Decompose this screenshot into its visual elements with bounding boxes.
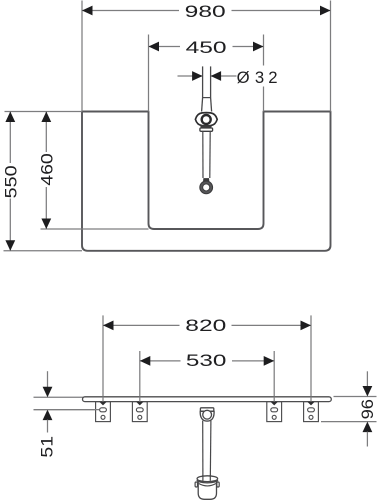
dim 51 lower extension line over bracket 1 (34, 409, 100, 411)
trap outlet horseshoe (200, 411, 214, 421)
dim 51 extension line top (34, 396, 92, 398)
pipe joint line (203, 97, 211, 99)
pipe into cup (202, 475, 204, 481)
drain pipe lower (top view) (202, 131, 204, 178)
dim 550 line (9, 112, 11, 164)
arrow 450 right (253, 42, 264, 52)
mounting bracket 3 (267, 402, 282, 422)
dim 550 extension line bottom (4, 250, 83, 252)
eye fitting dark band (200, 125, 211, 127)
extension line over plate + arrow at bracket 3 (273, 396, 275, 402)
mounting bracket 1 (96, 402, 111, 422)
extension line over plate + arrow at bracket 1 (102, 396, 104, 402)
svg-text:980: 980 (185, 2, 226, 21)
trap cup ears (195, 482, 197, 487)
console plate (front elevation) (83, 397, 332, 402)
dim 460 extension line bottom (41, 228, 149, 230)
ring tab (203, 178, 209, 182)
dim 450 extension line right (gap for Ø32 text) (263, 35, 265, 66)
dim 550 extension line top (5, 111, 83, 113)
dim Ø32 leader right (211, 75, 237, 77)
dim 51 line + outside arrows (47, 371, 49, 387)
dim 980 extension line left (81, 1, 83, 112)
arrow 460 bottom (41, 219, 51, 230)
dim 96 extension line bottom (321, 421, 377, 423)
svg-text:530: 530 (186, 351, 227, 370)
trap cup body (198, 482, 216, 500)
arrow 450 left (149, 42, 160, 52)
arrow 820 left (103, 321, 114, 331)
dim 820 extension line right (down to bracket 4) (310, 315, 312, 397)
eye fitting inner ring (202, 115, 211, 124)
arrow 530 left (140, 356, 151, 366)
svg-text:450: 450 (186, 38, 227, 57)
extension line over plate + arrow at bracket 4 (310, 396, 312, 402)
dim 820 line (103, 324, 180, 326)
dim 450 line (149, 46, 181, 48)
mounting bracket 4 (304, 402, 319, 422)
svg-text:96: 96 (358, 399, 377, 419)
console outline (top view, with back cutout) (82, 112, 331, 251)
dim 460 line (45, 112, 47, 153)
arrow 550 bottom (5, 240, 15, 251)
svg-text:460: 460 (37, 153, 56, 186)
dim 96 line + outside arrows (366, 371, 368, 386)
dim 51 extension line bottom (34, 409, 100, 411)
mounting bracket 2 (132, 402, 147, 422)
dim 530 line (140, 360, 181, 362)
svg-text:Ø32: Ø32 (237, 68, 278, 87)
drain pipe upper (top view) (202, 66, 204, 97)
arrow 980 left (82, 6, 93, 16)
eye fitting collar (200, 128, 213, 131)
svg-text:820: 820 (185, 316, 226, 335)
trap cup flange (197, 476, 218, 482)
trap cup inner lip arc (199, 484, 216, 486)
arrow 550 top (5, 112, 15, 123)
dim 96 extension line top (334, 396, 377, 398)
extension line over plate + arrow at bracket 2 (139, 396, 141, 402)
pipe flare into fitting (202, 98, 203, 112)
arrow Ø32 right (211, 71, 222, 81)
dim 530 extension line right (down to bracket 3) (273, 351, 275, 397)
drain ring (top view) (200, 181, 213, 194)
svg-text:550: 550 (1, 165, 20, 198)
dim 450 extension line left (148, 35, 150, 112)
dim 820 extension line left (down to bracket 1) (102, 315, 104, 397)
dim 980 line (82, 10, 179, 12)
arrow 820 right (301, 321, 312, 331)
svg-text:51: 51 (38, 436, 57, 458)
arrow Ø32 left (192, 71, 203, 81)
trap tail pipe (202, 421, 204, 481)
dim Ø32 leader left (178, 75, 203, 77)
dim 530 extension line left (down to bracket 2) (139, 351, 141, 397)
dim 980 extension line right (330, 1, 332, 112)
arrow 530 right (264, 356, 275, 366)
drain eye fitting (top view) (195, 113, 217, 126)
arrow 460 top (41, 112, 51, 123)
arrow 980 right (320, 6, 331, 16)
trap outlet bar (200, 408, 213, 411)
